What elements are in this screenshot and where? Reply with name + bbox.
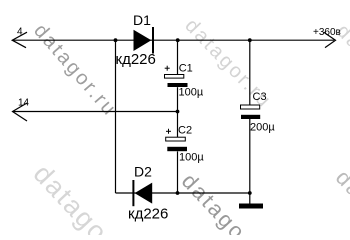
arrow right output +360v [324,32,336,47]
polarity + (C1) [165,66,170,71]
diode D1 [134,27,154,54]
svg-text:14: 14 [18,98,30,109]
node junction top-left [114,38,118,42]
svg-text:100µ: 100µ [179,87,204,99]
node junction middle C1/C2 [176,110,180,114]
svg-text:+360в: +360в [313,27,341,38]
diode D2 [133,180,152,206]
svg-text:C1: C1 [179,63,193,75]
node junction top C1 [176,38,180,42]
svg-text:D2: D2 [134,164,152,180]
node junction bottom C3 [248,191,252,195]
svg-text:4: 4 [17,27,23,38]
polarity + (C2) [166,129,171,134]
svg-text:кд226: кд226 [128,206,168,223]
arrow left input 4 [12,32,27,48]
node junction top C3 [248,38,252,42]
wire vertical left branch [115,40,117,193]
node junction bottom C2 [176,191,180,195]
capacitor C1 [165,75,188,88]
svg-text:200µ: 200µ [250,122,275,134]
capacitor C3 [241,105,261,119]
ground [239,193,263,209]
svg-text:C2: C2 [178,125,192,137]
wire middle rail [13,111,178,113]
wire bottom rail [116,192,251,194]
svg-text:100µ: 100µ [179,152,204,164]
svg-text:C3: C3 [253,91,267,103]
arrow left input 14 [13,103,28,121]
svg-text:кд226: кд226 [116,51,156,68]
svg-text:D1: D1 [133,12,151,28]
capacitor C2 [166,137,187,151]
wire C1-C2 branch [177,40,179,74]
wire top rail [13,39,334,41]
wire C3 branch [249,40,251,105]
